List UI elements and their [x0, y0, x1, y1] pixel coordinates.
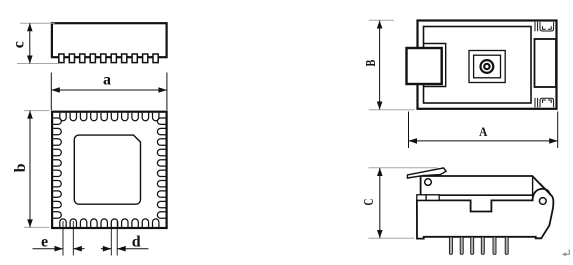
- svg-text:d: d: [132, 234, 141, 251]
- svg-text:c: c: [10, 41, 27, 48]
- svg-text:a: a: [103, 71, 111, 88]
- svg-text:b: b: [12, 163, 29, 172]
- svg-text:C: C: [362, 199, 377, 206]
- svg-text:A: A: [479, 124, 488, 139]
- svg-text:B: B: [364, 60, 379, 67]
- svg-text:e: e: [41, 234, 48, 251]
